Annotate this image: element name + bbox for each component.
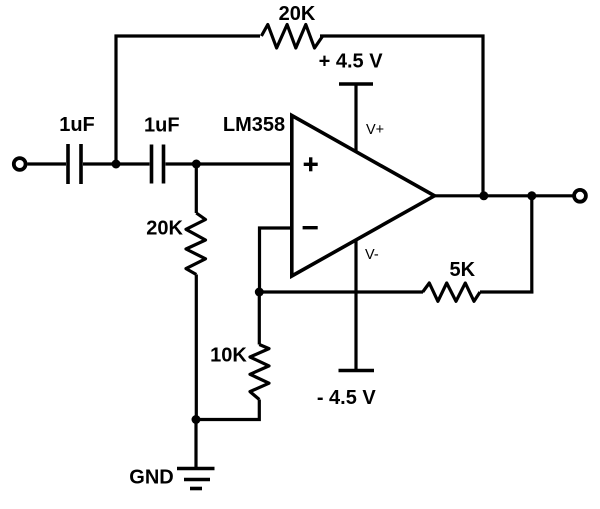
node C junction dot xyxy=(255,288,264,297)
svg-text:10K: 10K xyxy=(210,345,247,367)
resistor R2 20K (to ground) xyxy=(186,213,206,275)
wire C2 to op-amp + input xyxy=(166,162,292,165)
wire input to C1 xyxy=(28,162,67,165)
resistor R4 5K xyxy=(423,283,480,301)
wire R2 to ground node xyxy=(195,275,198,420)
V- supply bar xyxy=(339,369,375,373)
output node junction dot 1 xyxy=(479,191,488,200)
svg-text:LM358: LM358 xyxy=(223,114,285,136)
output terminal xyxy=(574,190,586,202)
ground node junction dot xyxy=(192,415,201,424)
wire V- from op-amp xyxy=(354,240,357,371)
svg-text:- 4.5 V: - 4.5 V xyxy=(317,387,377,409)
svg-text:20K: 20K xyxy=(279,3,316,25)
resistor R3 10K xyxy=(258,292,261,345)
svg-text:1uF: 1uF xyxy=(144,115,180,137)
output node junction dot 2 xyxy=(527,191,536,200)
wire node A up to feedback xyxy=(114,35,117,165)
wire V+ to op-amp xyxy=(354,84,357,153)
wire feedback top right xyxy=(320,34,485,37)
input terminal xyxy=(14,158,26,170)
wire feedback down to output node xyxy=(481,35,484,197)
wire node B down to R2 xyxy=(195,164,198,213)
capacitor C1 1uF xyxy=(68,144,81,184)
wire C1 to C2 xyxy=(83,162,150,165)
output wire xyxy=(435,194,574,197)
svg-text:20K: 20K xyxy=(146,217,183,239)
wire - input to node C xyxy=(260,228,292,292)
svg-text:+ 4.5 V: + 4.5 V xyxy=(319,51,384,73)
svg-text:V-: V- xyxy=(365,247,379,263)
wire R3 to ground rail xyxy=(196,400,259,420)
resistor R1 20K (feedback) xyxy=(261,25,322,49)
wire R4 to output branch xyxy=(480,290,533,293)
svg-text:GND: GND xyxy=(129,466,173,488)
wire feedback top left xyxy=(115,34,261,37)
op-amp U1 LM358 triangle xyxy=(292,116,435,277)
op-amp + input symbol xyxy=(304,157,318,171)
capacitor C2 1uF xyxy=(152,145,164,184)
op-amp - input symbol xyxy=(303,226,318,229)
svg-text:5K: 5K xyxy=(450,259,476,281)
wire node to GND symbol xyxy=(194,420,197,468)
svg-text:1uF: 1uF xyxy=(59,114,95,136)
V+ supply bar xyxy=(339,82,373,86)
node B junction dot xyxy=(192,160,201,169)
node A junction dot xyxy=(112,160,121,169)
ground symbol xyxy=(177,469,215,489)
wire node C to R4 xyxy=(259,290,423,293)
wire up to output node xyxy=(530,196,533,294)
svg-text:V+: V+ xyxy=(366,122,384,138)
